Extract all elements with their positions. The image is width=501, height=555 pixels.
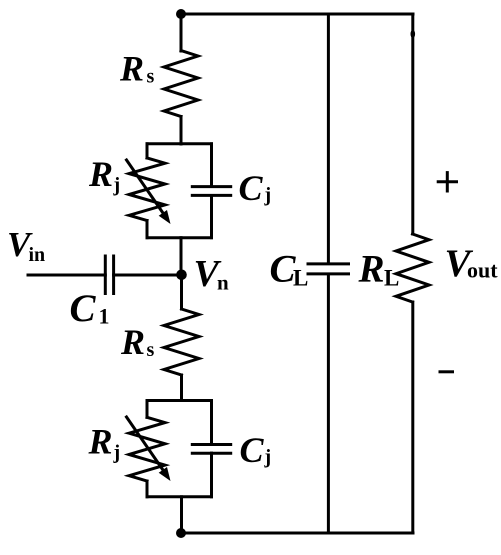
svg-text:j: j	[264, 184, 272, 206]
svg-text:j: j	[113, 174, 121, 196]
svg-text:j: j	[113, 442, 121, 464]
svg-text:R: R	[88, 154, 113, 194]
svg-text:R: R	[358, 248, 385, 291]
svg-text:s: s	[147, 66, 155, 88]
svg-text:R: R	[119, 49, 144, 89]
svg-text:1: 1	[99, 304, 110, 329]
svg-text:in: in	[29, 244, 46, 266]
svg-text:s: s	[147, 339, 155, 361]
svg-text:L: L	[293, 266, 308, 291]
svg-text:R: R	[120, 322, 145, 362]
svg-text:C: C	[240, 430, 265, 470]
svg-text:j: j	[264, 446, 272, 468]
svg-text:C: C	[70, 287, 97, 330]
svg-text:R: R	[88, 422, 113, 462]
svg-text:L: L	[384, 266, 399, 291]
svg-text:out: out	[467, 258, 498, 283]
svg-text:C: C	[239, 168, 264, 208]
svg-text:n: n	[217, 271, 229, 295]
